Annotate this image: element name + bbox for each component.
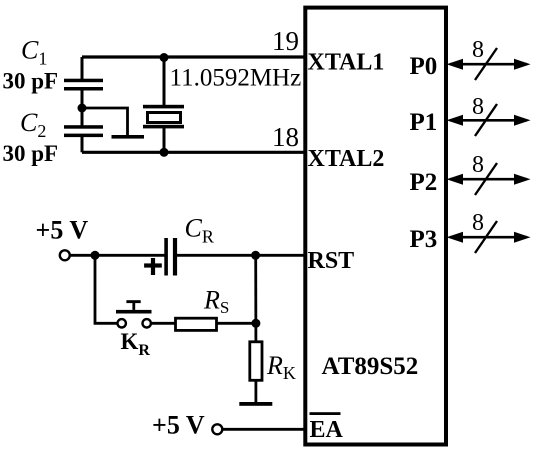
wire ground stub xyxy=(82,108,128,136)
capacitor C2 xyxy=(64,125,103,137)
svg-text:RST: RST xyxy=(308,248,355,274)
wire +5V to EA xyxy=(223,428,306,431)
wire +5V to CR xyxy=(70,254,165,257)
wire RST node down xyxy=(254,255,257,342)
svg-text:30 pF: 30 pF xyxy=(3,141,59,166)
wire CR to RST xyxy=(177,254,305,257)
svg-text:+5 V: +5 V xyxy=(152,411,205,440)
svg-text:P0: P0 xyxy=(410,53,438,80)
ground (oscillator) xyxy=(112,135,145,139)
wire RK to ground xyxy=(254,380,257,403)
label + polarity xyxy=(144,258,162,275)
svg-text:EA: EA xyxy=(310,417,344,443)
bus arrow P2 (8-bit) xyxy=(447,152,531,195)
svg-text:19: 19 xyxy=(272,26,299,56)
capacitor CR (electrolytic) xyxy=(164,238,177,276)
wire C2 bottom lead xyxy=(81,136,84,152)
wire XTAL1 top rail xyxy=(82,55,305,58)
wire RS to node xyxy=(217,322,260,325)
terminal +5V EA xyxy=(212,424,222,434)
IC U1 AT89S52 box xyxy=(305,8,446,445)
capacitor C1 xyxy=(64,79,103,91)
svg-text:XTAL2: XTAL2 xyxy=(308,146,385,172)
node +5V branch xyxy=(91,251,100,260)
svg-text:8: 8 xyxy=(472,37,484,63)
wire C1 top lead xyxy=(81,57,84,79)
svg-text:XTAL1: XTAL1 xyxy=(308,50,385,76)
ground (RK) xyxy=(239,402,272,406)
crystal Y1 11.0592MHz xyxy=(143,105,184,129)
node crystal bottom xyxy=(160,148,169,157)
svg-text:P2: P2 xyxy=(410,169,438,196)
node crystal top xyxy=(160,53,169,62)
wire crystal bottom lead xyxy=(163,128,166,152)
node C1/C2 junction xyxy=(78,104,87,113)
wire +5V down to switch xyxy=(95,255,118,323)
resistor RK xyxy=(250,342,262,381)
svg-text:30 pF: 30 pF xyxy=(3,69,59,94)
svg-text:P1: P1 xyxy=(410,109,438,136)
svg-text:18: 18 xyxy=(272,122,299,152)
wire C1-C2 link xyxy=(81,90,84,126)
resistor RS xyxy=(176,318,217,330)
wire switch to RS xyxy=(151,322,175,325)
wire XTAL2 bottom rail xyxy=(82,151,305,154)
node RST junction xyxy=(251,251,260,260)
svg-text:8: 8 xyxy=(472,94,484,120)
terminal +5V reset xyxy=(60,250,70,260)
svg-text:11.0592MHz: 11.0592MHz xyxy=(170,65,302,92)
svg-text:AT89S52: AT89S52 xyxy=(322,353,419,380)
bus arrow P3 (8-bit) xyxy=(447,210,531,253)
pin label EA (active low) xyxy=(310,412,344,443)
svg-text:8: 8 xyxy=(472,210,484,236)
switch KR (push button) xyxy=(116,300,152,327)
bus arrow P0 (8-bit) xyxy=(447,37,531,80)
wire crystal top lead xyxy=(163,57,166,106)
svg-text:8: 8 xyxy=(472,152,484,178)
bus arrow P1 (8-bit) xyxy=(447,94,531,136)
svg-text:P3: P3 xyxy=(410,226,438,253)
node RS/RK junction xyxy=(251,319,260,328)
svg-text:+5 V: +5 V xyxy=(36,216,89,245)
